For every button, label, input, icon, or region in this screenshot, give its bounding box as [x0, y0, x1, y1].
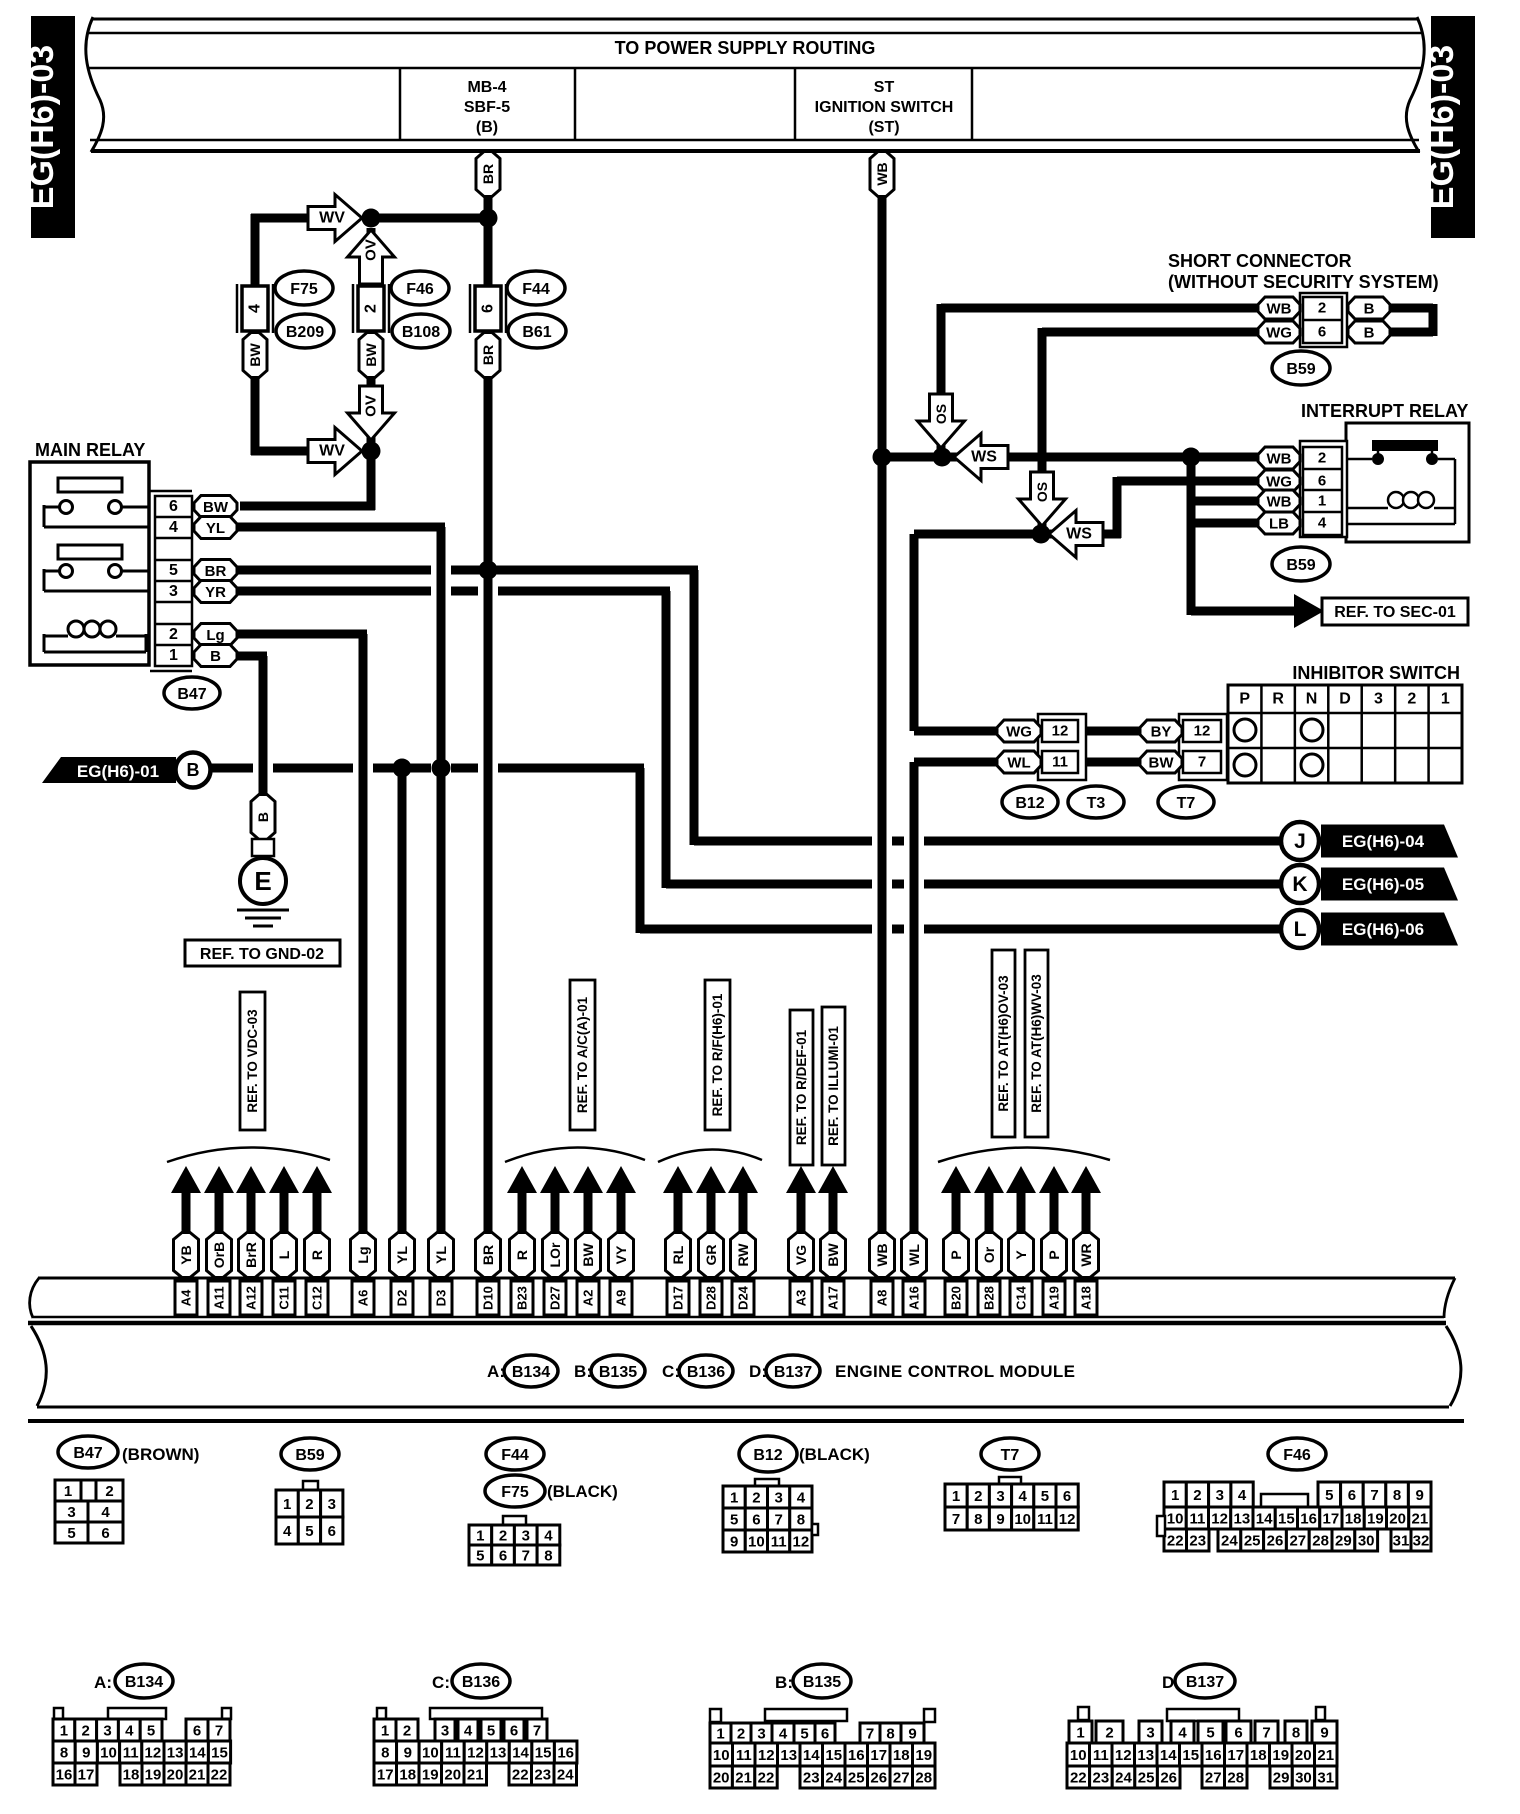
svg-text:2: 2 [403, 1723, 411, 1740]
svg-text:5: 5 [1325, 1487, 1333, 1504]
svg-text:5: 5 [730, 1512, 738, 1529]
svg-text:15: 15 [535, 1745, 552, 1762]
svg-text:13: 13 [1137, 1747, 1154, 1764]
svg-text:B59: B59 [1286, 361, 1315, 378]
svg-text:YR: YR [205, 584, 226, 601]
svg-text:2: 2 [974, 1488, 982, 1505]
svg-text:28: 28 [915, 1770, 932, 1787]
svg-text:BW: BW [363, 343, 379, 367]
svg-text:22: 22 [211, 1767, 228, 1784]
svg-text:L: L [1294, 918, 1307, 941]
svg-text:8: 8 [797, 1512, 805, 1529]
svg-text:REF. TO ILLUMI-01: REF. TO ILLUMI-01 [826, 1026, 841, 1146]
svg-text:2: 2 [1407, 691, 1416, 708]
svg-text:10: 10 [748, 1534, 765, 1551]
svg-text:WS: WS [1066, 526, 1092, 543]
svg-text:A8: A8 [875, 1290, 890, 1307]
svg-text:10: 10 [422, 1745, 439, 1762]
svg-text:25: 25 [1138, 1770, 1155, 1787]
svg-text:6: 6 [193, 1723, 201, 1740]
svg-text:9: 9 [1416, 1487, 1424, 1504]
svg-text:OrB: OrB [211, 1242, 227, 1268]
svg-text:A12: A12 [244, 1286, 259, 1310]
svg-text:20: 20 [713, 1770, 730, 1787]
svg-text:A11: A11 [212, 1286, 227, 1309]
svg-text:31: 31 [1393, 1533, 1410, 1550]
svg-text:9: 9 [1320, 1725, 1328, 1742]
svg-text:L: L [276, 1250, 292, 1259]
svg-text:14: 14 [803, 1747, 820, 1764]
svg-text:14: 14 [189, 1745, 206, 1762]
svg-text:19: 19 [1272, 1747, 1289, 1764]
svg-text:3: 3 [996, 1488, 1004, 1505]
svg-text:21: 21 [467, 1767, 484, 1784]
svg-text:B59: B59 [295, 1447, 324, 1464]
svg-text:B47: B47 [177, 686, 206, 703]
svg-text:9: 9 [82, 1745, 90, 1762]
svg-text:5: 5 [800, 1726, 808, 1743]
svg-text:B: B [187, 760, 200, 780]
svg-text:7: 7 [866, 1726, 874, 1743]
svg-text:(BLACK): (BLACK) [547, 1482, 618, 1501]
svg-text:B:: B: [775, 1673, 793, 1692]
svg-text:TO POWER SUPPLY ROUTING: TO POWER SUPPLY ROUTING [615, 38, 876, 58]
svg-text:K: K [1292, 873, 1307, 896]
svg-text:7: 7 [1262, 1725, 1270, 1742]
svg-text:11: 11 [1189, 1511, 1205, 1528]
svg-text:BR: BR [480, 164, 496, 184]
svg-text:4: 4 [544, 1528, 553, 1545]
svg-text:OS: OS [1034, 482, 1050, 502]
svg-text:26: 26 [1160, 1770, 1177, 1787]
svg-text:3: 3 [67, 1504, 75, 1521]
svg-text:B61: B61 [522, 324, 551, 341]
svg-text:P: P [1239, 691, 1250, 708]
svg-text:WR: WR [1078, 1243, 1094, 1266]
svg-text:OV: OV [363, 239, 380, 261]
svg-text:(WITHOUT SECURITY SYSTEM): (WITHOUT SECURITY SYSTEM) [1168, 272, 1439, 292]
svg-text:F46: F46 [406, 281, 434, 298]
svg-text:SHORT CONNECTOR: SHORT CONNECTOR [1168, 251, 1352, 271]
svg-text:B28: B28 [982, 1286, 997, 1310]
svg-text:18: 18 [1250, 1747, 1267, 1764]
svg-text:J: J [1294, 830, 1306, 853]
svg-text:INHIBITOR SWITCH: INHIBITOR SWITCH [1292, 663, 1460, 683]
svg-text:WB: WB [874, 162, 890, 185]
svg-text:11: 11 [1093, 1747, 1109, 1764]
svg-text:6: 6 [821, 1726, 829, 1743]
svg-text:14: 14 [512, 1745, 529, 1762]
svg-text:1: 1 [1441, 691, 1450, 708]
svg-text:2: 2 [1318, 450, 1326, 467]
svg-text:11: 11 [1037, 1511, 1053, 1528]
svg-text:REF. TO A/C(A)-01: REF. TO A/C(A)-01 [575, 996, 590, 1113]
svg-text:6: 6 [1318, 324, 1326, 341]
svg-text:21: 21 [735, 1770, 752, 1787]
svg-text:4: 4 [464, 1723, 473, 1740]
svg-text:2: 2 [1193, 1487, 1201, 1504]
svg-text:23: 23 [1093, 1770, 1110, 1787]
svg-text:10: 10 [1167, 1511, 1184, 1528]
svg-text:A16: A16 [907, 1286, 922, 1310]
svg-text:19: 19 [1367, 1511, 1384, 1528]
svg-text:OV: OV [363, 395, 380, 417]
svg-text:A17: A17 [826, 1286, 841, 1310]
svg-text:REF. TO R/DEF-01: REF. TO R/DEF-01 [794, 1029, 809, 1145]
svg-text:B137: B137 [1186, 1674, 1224, 1691]
svg-text:14: 14 [1256, 1511, 1273, 1528]
svg-text:ENGINE CONTROL MODULE: ENGINE CONTROL MODULE [835, 1362, 1075, 1381]
svg-text:B137: B137 [774, 1364, 812, 1381]
svg-text:N: N [1306, 691, 1318, 708]
svg-text:2: 2 [305, 1496, 313, 1513]
svg-text:32: 32 [1413, 1533, 1430, 1550]
svg-text:B135: B135 [599, 1364, 637, 1381]
svg-text:18: 18 [893, 1747, 910, 1764]
svg-text:8: 8 [381, 1745, 389, 1762]
svg-text:C12: C12 [310, 1286, 325, 1310]
svg-text:B12: B12 [753, 1447, 782, 1464]
svg-text:R: R [1272, 691, 1284, 708]
svg-text:1: 1 [1076, 1725, 1084, 1742]
svg-text:B47: B47 [73, 1445, 102, 1462]
svg-text:6: 6 [328, 1523, 336, 1540]
svg-text:12: 12 [758, 1747, 775, 1764]
svg-text:19: 19 [422, 1767, 439, 1784]
svg-text:Lg: Lg [355, 1246, 371, 1263]
svg-text:RW: RW [735, 1243, 751, 1267]
svg-text:22: 22 [512, 1767, 529, 1784]
svg-text:4: 4 [1318, 515, 1327, 532]
svg-text:8: 8 [886, 1726, 894, 1743]
svg-text:WB: WB [1267, 450, 1292, 467]
svg-text:3: 3 [1146, 1725, 1154, 1742]
svg-text:12: 12 [1115, 1747, 1132, 1764]
svg-text:24: 24 [1221, 1533, 1238, 1550]
svg-text:2: 2 [169, 626, 178, 643]
svg-text:B20: B20 [949, 1286, 964, 1310]
svg-text:C14: C14 [1014, 1285, 1029, 1310]
svg-text:REF. TO SEC-01: REF. TO SEC-01 [1334, 604, 1456, 621]
svg-text:(B): (B) [476, 119, 498, 136]
svg-text:30: 30 [1358, 1533, 1375, 1550]
svg-text:18: 18 [399, 1767, 416, 1784]
svg-text:2: 2 [105, 1483, 113, 1500]
svg-text:6: 6 [499, 1548, 507, 1565]
svg-text:5: 5 [487, 1723, 495, 1740]
svg-text:MAIN RELAY: MAIN RELAY [35, 440, 145, 460]
svg-text:20: 20 [444, 1767, 461, 1784]
svg-text:19: 19 [145, 1767, 162, 1784]
svg-text:A4: A4 [179, 1289, 194, 1306]
svg-text:7: 7 [215, 1723, 223, 1740]
svg-text:8: 8 [1393, 1487, 1401, 1504]
svg-text:R: R [309, 1250, 325, 1260]
svg-text:Lg: Lg [206, 627, 224, 644]
svg-text:5: 5 [1206, 1725, 1214, 1742]
svg-text:B134: B134 [125, 1674, 163, 1691]
svg-text:B59: B59 [1286, 557, 1315, 574]
svg-text:3: 3 [522, 1528, 530, 1545]
svg-text:21: 21 [1412, 1511, 1429, 1528]
svg-text:ST: ST [874, 79, 895, 96]
svg-text:7: 7 [1370, 1487, 1378, 1504]
svg-text:Or: Or [981, 1246, 997, 1263]
svg-text:2: 2 [499, 1528, 507, 1545]
svg-text:17: 17 [1323, 1511, 1340, 1528]
svg-text:9: 9 [908, 1726, 916, 1743]
svg-text:REF. TO GND-02: REF. TO GND-02 [200, 946, 324, 963]
svg-text:16: 16 [848, 1747, 865, 1764]
svg-text:13: 13 [780, 1747, 797, 1764]
svg-text:29: 29 [1273, 1770, 1290, 1787]
svg-text:17: 17 [377, 1767, 394, 1784]
svg-text:B136: B136 [462, 1674, 500, 1691]
svg-text:7: 7 [533, 1723, 541, 1740]
svg-text:F75: F75 [290, 281, 318, 298]
svg-text:4: 4 [1178, 1725, 1187, 1742]
svg-text:LOr: LOr [547, 1242, 563, 1267]
svg-text:2: 2 [752, 1490, 760, 1507]
svg-text:1: 1 [952, 1488, 960, 1505]
svg-text:20: 20 [167, 1767, 184, 1784]
svg-text:RL: RL [670, 1245, 686, 1264]
svg-text:1: 1 [283, 1496, 291, 1513]
svg-text:23: 23 [1189, 1533, 1206, 1550]
svg-text:D27: D27 [548, 1286, 563, 1310]
svg-text:12: 12 [1194, 723, 1211, 740]
svg-text:1: 1 [716, 1726, 724, 1743]
svg-text:YB: YB [178, 1245, 194, 1264]
svg-text:11: 11 [1052, 754, 1068, 771]
svg-text:17: 17 [1227, 1747, 1244, 1764]
svg-text:23: 23 [534, 1767, 551, 1784]
svg-text:D17: D17 [671, 1286, 686, 1310]
svg-text:3: 3 [774, 1490, 782, 1507]
svg-text:4: 4 [1019, 1488, 1028, 1505]
svg-text:A2: A2 [581, 1290, 596, 1307]
svg-text:WV: WV [319, 210, 345, 227]
svg-text:26: 26 [1267, 1533, 1284, 1550]
svg-text:EG(H6)-03: EG(H6)-03 [1423, 45, 1461, 209]
svg-text:WB: WB [1267, 300, 1292, 317]
svg-text:P: P [948, 1250, 964, 1259]
svg-text:B23: B23 [515, 1286, 530, 1310]
svg-text:MB-4: MB-4 [467, 79, 506, 96]
svg-text:22: 22 [758, 1770, 775, 1787]
svg-text:6: 6 [169, 498, 178, 515]
svg-text:REF. TO AT(H6)WV-03: REF. TO AT(H6)WV-03 [1029, 974, 1044, 1113]
svg-text:3: 3 [441, 1723, 449, 1740]
svg-text:IGNITION SWITCH: IGNITION SWITCH [815, 99, 954, 116]
svg-text:1: 1 [169, 647, 178, 664]
svg-text:10: 10 [1014, 1511, 1031, 1528]
svg-text:8: 8 [974, 1511, 982, 1528]
svg-text:BrR: BrR [243, 1242, 259, 1268]
svg-text:2: 2 [1105, 1725, 1113, 1742]
svg-text:WG: WG [1266, 473, 1292, 490]
svg-text:27: 27 [1289, 1533, 1306, 1550]
svg-text:(BROWN): (BROWN) [122, 1445, 199, 1464]
svg-text:24: 24 [1115, 1770, 1132, 1787]
svg-text:WL: WL [1007, 754, 1030, 771]
svg-text:15: 15 [1182, 1747, 1199, 1764]
svg-text:1: 1 [381, 1723, 389, 1740]
svg-text:BW: BW [825, 1243, 841, 1267]
svg-text:15: 15 [211, 1745, 228, 1762]
svg-text:5: 5 [1041, 1488, 1049, 1505]
svg-text:1: 1 [476, 1528, 484, 1545]
svg-text:11: 11 [445, 1745, 461, 1762]
svg-text:(ST): (ST) [868, 119, 899, 136]
svg-text:6: 6 [1348, 1487, 1356, 1504]
svg-text:21: 21 [189, 1767, 206, 1784]
svg-text:B136: B136 [687, 1364, 725, 1381]
svg-text:18: 18 [1345, 1511, 1362, 1528]
svg-text:YL: YL [394, 1246, 410, 1264]
svg-text:20: 20 [1389, 1511, 1406, 1528]
svg-text:F44: F44 [501, 1447, 529, 1464]
svg-text:B: B [210, 648, 221, 665]
svg-text:2: 2 [363, 304, 380, 313]
svg-text:6: 6 [510, 1723, 518, 1740]
svg-text:EG(H6)-03: EG(H6)-03 [23, 45, 61, 209]
svg-text:12: 12 [1211, 1511, 1228, 1528]
svg-text:WV: WV [319, 443, 345, 460]
svg-text:27: 27 [893, 1770, 910, 1787]
svg-text:20: 20 [1295, 1747, 1312, 1764]
svg-text:9: 9 [404, 1745, 412, 1762]
svg-text:F46: F46 [1283, 1447, 1311, 1464]
svg-text:B209: B209 [286, 324, 324, 341]
svg-text:16: 16 [56, 1767, 73, 1784]
svg-text:E: E [254, 866, 271, 896]
svg-text:D24: D24 [736, 1285, 751, 1310]
svg-text:5: 5 [147, 1723, 155, 1740]
svg-text:BW: BW [203, 499, 229, 516]
svg-text:7: 7 [522, 1548, 530, 1565]
svg-text:9: 9 [730, 1534, 738, 1551]
svg-text:6: 6 [101, 1525, 109, 1542]
svg-text:D: D [1339, 691, 1351, 708]
svg-text:29: 29 [1335, 1533, 1352, 1550]
svg-text:YL: YL [433, 1246, 449, 1264]
svg-text:VG: VG [793, 1245, 809, 1265]
svg-text:5: 5 [67, 1525, 75, 1542]
svg-text:VY: VY [613, 1245, 629, 1264]
svg-text:BY: BY [1151, 723, 1172, 740]
svg-text:A9: A9 [614, 1290, 629, 1307]
svg-text:B: B [1364, 324, 1375, 341]
svg-text:BW: BW [247, 343, 263, 367]
svg-text:23: 23 [803, 1770, 820, 1787]
svg-text:15: 15 [825, 1747, 842, 1764]
svg-text:T7: T7 [1001, 1447, 1020, 1464]
svg-text:10: 10 [1070, 1747, 1087, 1764]
svg-text:7: 7 [1198, 754, 1206, 771]
svg-text:OS: OS [933, 404, 949, 424]
svg-text:16: 16 [1205, 1747, 1222, 1764]
svg-text:B134: B134 [512, 1364, 550, 1381]
svg-text:19: 19 [915, 1747, 932, 1764]
svg-text:REF. TO AT(H6)OV-03: REF. TO AT(H6)OV-03 [996, 975, 1011, 1112]
svg-text:B12: B12 [1015, 795, 1044, 812]
svg-text:INTERRUPT RELAY: INTERRUPT RELAY [1301, 401, 1468, 421]
svg-text:T7: T7 [1177, 795, 1196, 812]
svg-text:3: 3 [1216, 1487, 1224, 1504]
svg-text:Y: Y [1013, 1250, 1029, 1260]
svg-text:28: 28 [1312, 1533, 1329, 1550]
svg-text:C:: C: [432, 1673, 450, 1692]
svg-text:T3: T3 [1087, 795, 1106, 812]
svg-text:1: 1 [1171, 1487, 1179, 1504]
svg-text:11: 11 [123, 1745, 139, 1762]
svg-text:7: 7 [952, 1511, 960, 1528]
svg-text:5: 5 [476, 1548, 484, 1565]
svg-text:BR: BR [480, 345, 496, 365]
svg-text:4: 4 [1238, 1487, 1247, 1504]
svg-text:(BLACK): (BLACK) [799, 1445, 870, 1464]
svg-text:B: B [1364, 300, 1375, 317]
svg-text:EG(H6)-05: EG(H6)-05 [1342, 875, 1424, 894]
svg-text:10: 10 [100, 1745, 117, 1762]
svg-text:R: R [514, 1250, 530, 1260]
svg-text:D10: D10 [481, 1286, 496, 1310]
svg-text:13: 13 [490, 1745, 507, 1762]
svg-text:22: 22 [1167, 1533, 1184, 1550]
svg-text:3: 3 [1374, 691, 1383, 708]
svg-text:7: 7 [774, 1512, 782, 1529]
svg-text:13: 13 [167, 1745, 184, 1762]
svg-text:12: 12 [145, 1745, 162, 1762]
svg-text:30: 30 [1295, 1770, 1312, 1787]
svg-text:BR: BR [205, 563, 227, 580]
svg-text:1: 1 [60, 1723, 68, 1740]
svg-text:WG: WG [1006, 723, 1032, 740]
svg-text:22: 22 [1070, 1770, 1087, 1787]
svg-text:SBF-5: SBF-5 [464, 99, 510, 116]
svg-text:EG(H6)-06: EG(H6)-06 [1342, 920, 1424, 939]
svg-text:4: 4 [101, 1504, 110, 1521]
svg-text:25: 25 [1244, 1533, 1261, 1550]
svg-text:16: 16 [1300, 1511, 1317, 1528]
svg-text:D2: D2 [395, 1290, 410, 1307]
svg-text:F75: F75 [501, 1484, 529, 1501]
svg-text:EG(H6)-04: EG(H6)-04 [1342, 832, 1425, 851]
svg-text:A3: A3 [794, 1290, 809, 1307]
svg-text:1: 1 [1318, 493, 1326, 510]
svg-text:C11: C11 [277, 1286, 292, 1309]
svg-text:B: B [255, 812, 271, 822]
svg-text:6: 6 [1234, 1725, 1242, 1742]
svg-text:2: 2 [82, 1723, 90, 1740]
svg-text:EG(H6)-01: EG(H6)-01 [77, 762, 159, 781]
svg-text:12: 12 [793, 1534, 810, 1551]
svg-text:A6: A6 [356, 1290, 371, 1307]
svg-text:3: 3 [169, 583, 178, 600]
svg-text:13: 13 [1234, 1511, 1251, 1528]
svg-text:4: 4 [169, 519, 178, 536]
svg-text:12: 12 [467, 1745, 484, 1762]
svg-text:WG: WG [1266, 324, 1292, 341]
svg-text:LB: LB [1269, 515, 1289, 532]
svg-text:12: 12 [1059, 1511, 1076, 1528]
svg-text:14: 14 [1160, 1747, 1177, 1764]
svg-text:REF. TO R/F(H6)-01: REF. TO R/F(H6)-01 [710, 993, 725, 1116]
svg-text:8: 8 [1292, 1725, 1300, 1742]
svg-text:28: 28 [1227, 1770, 1244, 1787]
svg-text:F44: F44 [522, 281, 550, 298]
